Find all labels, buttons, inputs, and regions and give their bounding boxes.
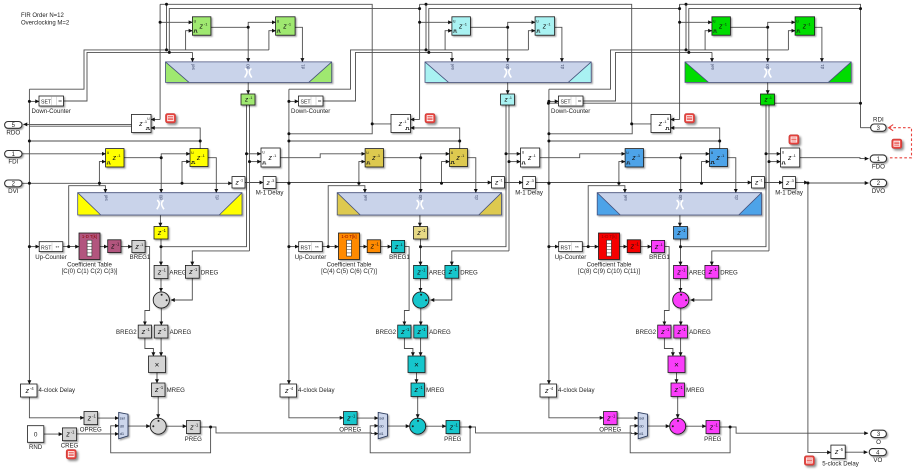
svg-text:[C(4) C(5) C(6) C(7)]: [C(4) C(5) C(6) C(7)] bbox=[321, 268, 377, 275]
svg-text:z: z bbox=[394, 244, 399, 251]
svg-text:RST: RST bbox=[301, 245, 312, 251]
svg-text:sel: sel bbox=[379, 415, 384, 420]
svg-text:PREG: PREG bbox=[444, 436, 462, 443]
svg-text:z: z bbox=[708, 267, 713, 276]
svg-text:sel: sel bbox=[191, 64, 197, 70]
svg-text:z: z bbox=[25, 386, 30, 395]
svg-text:z: z bbox=[416, 327, 421, 336]
svg-text:BREG2: BREG2 bbox=[636, 329, 657, 336]
svg-text:d1: d1 bbox=[474, 194, 480, 200]
svg-text:z: z bbox=[416, 228, 421, 237]
svg-text:z: z bbox=[449, 422, 454, 431]
svg-text:z: z bbox=[494, 180, 499, 187]
svg-text:1-D T[k]: 1-D T[k] bbox=[82, 234, 97, 239]
svg-text:4-clock Delay: 4-clock Delay bbox=[39, 387, 77, 394]
svg-text:z: z bbox=[112, 155, 117, 162]
svg-text:0: 0 bbox=[34, 432, 38, 439]
svg-text:DREG: DREG bbox=[720, 270, 738, 277]
svg-text:sel: sel bbox=[120, 415, 125, 420]
svg-text:MREG: MREG bbox=[426, 387, 445, 394]
svg-text:RDO: RDO bbox=[6, 130, 20, 137]
svg-text:-3: -3 bbox=[790, 178, 793, 183]
svg-text:-3: -3 bbox=[530, 178, 533, 183]
svg-text:SET: SET bbox=[41, 100, 52, 106]
svg-text:d0: d0 bbox=[379, 423, 384, 428]
svg-text:z: z bbox=[154, 385, 159, 394]
svg-text:Down-Counter: Down-Counter bbox=[551, 108, 590, 115]
svg-text:z: z bbox=[676, 267, 681, 276]
svg-text:sel: sel bbox=[623, 195, 629, 201]
svg-text:Up-Counter: Up-Counter bbox=[35, 254, 67, 261]
svg-text:z: z bbox=[676, 327, 681, 336]
svg-text:z: z bbox=[265, 180, 270, 187]
svg-text:[C(0) C(1) C(2) C(3)]: [C(0) C(1) C(2) C(3)] bbox=[62, 268, 118, 275]
svg-text:-1: -1 bbox=[249, 96, 252, 100]
svg-text:z: z bbox=[630, 242, 635, 251]
svg-text:**: ** bbox=[315, 245, 319, 251]
svg-text:d1: d1 bbox=[734, 194, 740, 200]
svg-text:d1: d1 bbox=[379, 431, 384, 436]
svg-text:AREG: AREG bbox=[429, 270, 447, 277]
svg-text:BREG2: BREG2 bbox=[376, 329, 397, 336]
svg-text:z: z bbox=[754, 180, 759, 187]
svg-text:z: z bbox=[448, 267, 453, 276]
svg-text:-1: -1 bbox=[499, 179, 502, 183]
svg-text:z: z bbox=[370, 242, 375, 251]
svg-text:z: z bbox=[138, 121, 143, 128]
svg-text:z: z bbox=[542, 23, 547, 30]
svg-text:z: z bbox=[189, 422, 194, 431]
svg-text:d1: d1 bbox=[820, 64, 826, 70]
svg-text:M-1 Delay: M-1 Delay bbox=[775, 190, 804, 197]
svg-text:×: × bbox=[674, 360, 679, 369]
svg-text:z: z bbox=[544, 386, 549, 395]
svg-text:RST: RST bbox=[561, 245, 572, 251]
svg-text:OPREG: OPREG bbox=[339, 427, 361, 434]
svg-text:z: z bbox=[674, 385, 679, 394]
svg-text:z: z bbox=[802, 23, 807, 30]
svg-text:DREG: DREG bbox=[460, 270, 478, 277]
svg-text:Up-Counter: Up-Counter bbox=[295, 254, 327, 261]
svg-text:M-1 Delay: M-1 Delay bbox=[515, 190, 544, 197]
svg-text:d0: d0 bbox=[120, 423, 125, 428]
svg-text:ADREG: ADREG bbox=[689, 329, 711, 336]
svg-text:ADREG: ADREG bbox=[170, 329, 192, 336]
svg-text:z: z bbox=[282, 23, 287, 30]
svg-text:z: z bbox=[157, 327, 162, 336]
svg-text:[C(8) C(9) C(10) C(11)]: [C(8) C(9) C(10) C(11)] bbox=[578, 268, 640, 275]
svg-text:z: z bbox=[709, 422, 714, 431]
svg-text:M-1 Delay: M-1 Delay bbox=[256, 190, 285, 197]
svg-text:MREG: MREG bbox=[167, 387, 186, 394]
svg-text:z: z bbox=[87, 413, 92, 422]
svg-text:z: z bbox=[110, 242, 115, 251]
svg-text:sel: sel bbox=[710, 64, 716, 70]
svg-text:×: × bbox=[155, 360, 160, 369]
svg-text:SET: SET bbox=[301, 100, 312, 106]
svg-text:Overclocking M=2: Overclocking M=2 bbox=[21, 20, 70, 26]
svg-text:DREG: DREG bbox=[201, 270, 219, 277]
svg-text:sel: sel bbox=[450, 64, 456, 70]
svg-text:OPREG: OPREG bbox=[80, 427, 102, 434]
svg-text:sel: sel bbox=[104, 195, 110, 201]
svg-text:z: z bbox=[284, 386, 289, 395]
svg-text:z: z bbox=[787, 155, 792, 162]
svg-text:d0: d0 bbox=[639, 423, 644, 428]
svg-text:z: z bbox=[141, 327, 146, 336]
svg-text:1-D T[k]: 1-D T[k] bbox=[601, 234, 616, 239]
svg-text:z: z bbox=[718, 23, 723, 30]
svg-text:MREG: MREG bbox=[686, 387, 705, 394]
svg-text:ADREG: ADREG bbox=[429, 329, 451, 336]
svg-text:O: O bbox=[876, 439, 881, 446]
svg-text:z: z bbox=[157, 228, 162, 237]
svg-text:AREG: AREG bbox=[169, 270, 187, 277]
svg-text:PREG: PREG bbox=[704, 436, 722, 443]
svg-text:-3: -3 bbox=[271, 178, 274, 183]
svg-text:z: z bbox=[658, 121, 663, 128]
svg-text:RST: RST bbox=[41, 245, 52, 251]
svg-text:z: z bbox=[715, 155, 720, 162]
svg-text:OPREG: OPREG bbox=[599, 427, 621, 434]
svg-text:1-D T[k]: 1-D T[k] bbox=[341, 234, 356, 239]
svg-text:z: z bbox=[134, 244, 139, 251]
svg-text:d0: d0 bbox=[418, 194, 424, 200]
svg-text:z: z bbox=[455, 155, 460, 162]
svg-text:z: z bbox=[676, 228, 681, 237]
svg-text:z: z bbox=[414, 385, 419, 394]
svg-text:z: z bbox=[371, 155, 376, 162]
svg-text:z: z bbox=[416, 267, 421, 276]
svg-text:d0: d0 bbox=[159, 194, 165, 200]
svg-text:SET: SET bbox=[561, 100, 572, 106]
svg-text:z: z bbox=[654, 244, 659, 251]
svg-text:Up-Counter: Up-Counter bbox=[555, 254, 587, 261]
svg-text:FDI: FDI bbox=[8, 159, 18, 166]
svg-text:d1: d1 bbox=[120, 431, 125, 436]
svg-text:RDI: RDI bbox=[873, 117, 884, 124]
svg-text:d1: d1 bbox=[560, 64, 566, 70]
svg-text:BREG1: BREG1 bbox=[130, 254, 151, 261]
svg-text:AREG: AREG bbox=[689, 270, 707, 277]
svg-text:BREG2: BREG2 bbox=[116, 329, 137, 336]
svg-text:CREG: CREG bbox=[61, 442, 79, 449]
svg-text:Down-Counter: Down-Counter bbox=[291, 108, 330, 115]
svg-text:d1: d1 bbox=[639, 431, 644, 436]
svg-text:z: z bbox=[606, 413, 611, 422]
svg-text:4-clock Delay: 4-clock Delay bbox=[298, 387, 336, 394]
svg-text:DVO: DVO bbox=[872, 188, 886, 195]
svg-text:VO: VO bbox=[873, 457, 882, 464]
svg-text:-1: -1 bbox=[509, 96, 512, 100]
svg-text:FDO: FDO bbox=[872, 164, 885, 171]
svg-text:-1: -1 bbox=[240, 179, 243, 183]
svg-text:BREG1: BREG1 bbox=[389, 254, 410, 261]
svg-text:PREG: PREG bbox=[185, 436, 203, 443]
svg-text:z: z bbox=[527, 155, 532, 162]
svg-text:z: z bbox=[267, 155, 272, 162]
svg-text:DVI: DVI bbox=[8, 188, 19, 195]
svg-text:sel: sel bbox=[363, 195, 369, 201]
svg-text:×: × bbox=[414, 360, 419, 369]
svg-text:z: z bbox=[631, 155, 636, 162]
svg-text:z: z bbox=[157, 267, 162, 276]
svg-text:Down-Counter: Down-Counter bbox=[32, 108, 71, 115]
svg-text:z: z bbox=[234, 180, 239, 187]
svg-text:z: z bbox=[188, 267, 193, 276]
svg-text:BREG1: BREG1 bbox=[649, 254, 670, 261]
svg-text:-1: -1 bbox=[769, 96, 772, 100]
svg-text:z: z bbox=[785, 180, 790, 187]
svg-text:-1: -1 bbox=[759, 179, 762, 183]
svg-text:z: z bbox=[834, 447, 839, 456]
svg-text:d1: d1 bbox=[215, 194, 221, 200]
svg-text:**: ** bbox=[575, 245, 579, 251]
svg-text:z: z bbox=[660, 327, 665, 336]
svg-text:sel: sel bbox=[639, 415, 644, 420]
svg-text:4-clock Delay: 4-clock Delay bbox=[558, 387, 596, 394]
svg-text:RND: RND bbox=[29, 444, 43, 451]
svg-text:z: z bbox=[400, 327, 405, 336]
svg-text:z: z bbox=[199, 23, 204, 30]
svg-text:z: z bbox=[398, 121, 403, 128]
svg-text:d1: d1 bbox=[301, 64, 307, 70]
svg-text:5-clock Delay: 5-clock Delay bbox=[822, 460, 860, 467]
svg-text:z: z bbox=[346, 413, 351, 422]
svg-text:z: z bbox=[525, 180, 530, 187]
svg-text:FIR Order N=12: FIR Order N=12 bbox=[21, 13, 65, 19]
svg-text:z: z bbox=[65, 430, 70, 439]
svg-text:z: z bbox=[196, 155, 201, 162]
svg-text:z: z bbox=[458, 23, 463, 30]
svg-text:**: ** bbox=[56, 245, 60, 251]
svg-text:d0: d0 bbox=[678, 194, 684, 200]
